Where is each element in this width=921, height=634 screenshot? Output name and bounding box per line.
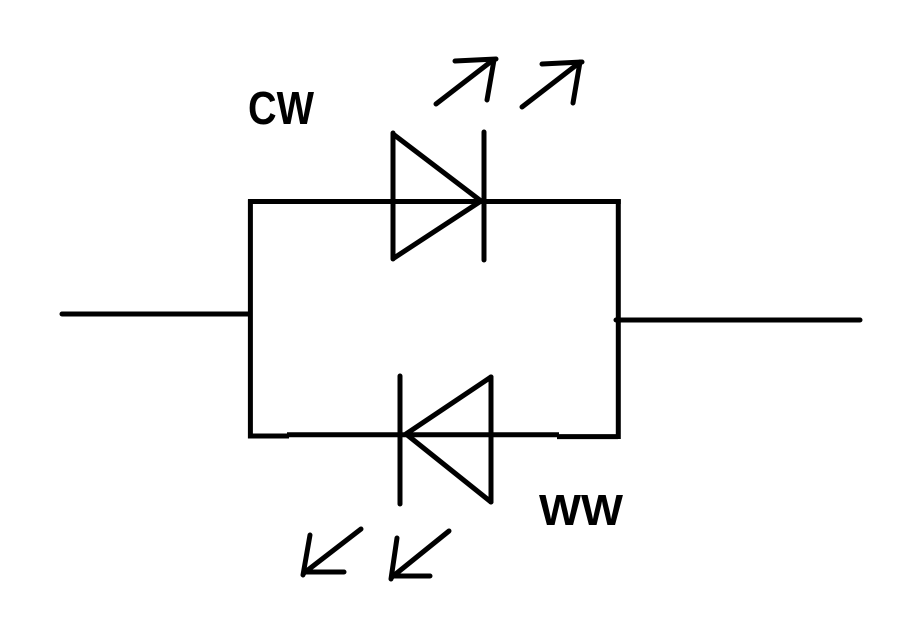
wire right vertical [616,202,621,437]
wire top [248,199,621,204]
led CW cathode bar [482,132,487,260]
light arrow CW 1 [436,59,496,104]
led WW anode triangle [406,377,491,502]
svg-text:WW: WW [539,487,624,535]
led WW cathode bar [398,376,403,504]
light arrow WW 1 [303,529,361,575]
light arrow CW 2 [522,62,582,107]
svg-text:CW: CW [248,82,314,134]
wire left vertical [248,202,253,436]
led CW anode triangle [393,133,481,259]
wire left lead [62,312,249,317]
wire right lead [616,318,860,323]
wire bottom [249,435,618,437]
light arrow WW 2 [391,531,449,579]
